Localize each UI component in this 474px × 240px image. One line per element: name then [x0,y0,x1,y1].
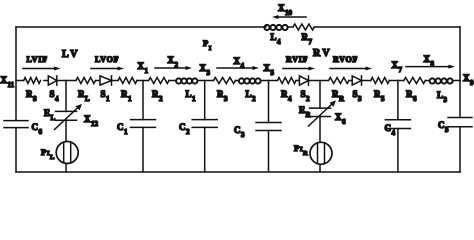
svg-text:R3: R3 [217,89,228,103]
resistor R3 [214,78,236,103]
wire: rail from X11 to R8 [16,80,24,82]
inductor L4 [264,25,288,46]
svg-text:EL: EL [44,108,56,122]
svg-text:C6: C6 [32,122,43,136]
wire: rail S1 to R1 [112,80,119,82]
wire: right bus (C5 down to bottom bus) [459,127,461,172]
wire: branch EL down to source PIL [65,120,67,141]
wire: rail S3 to R5 [362,80,371,82]
wire: branch X3 down to C2 [204,81,206,120]
resistor R5 [371,78,390,103]
svg-text:R2: R2 [152,89,163,103]
wire: rail R8 to S4 [44,80,48,82]
svg-text:R7: R7 [302,32,313,46]
wire: right bus (X9 down to C5) [459,81,461,118]
diode S4 [48,76,59,103]
capacitor C1 [117,120,156,136]
wire: branch ER down to source PIR [319,117,321,143]
svg-text:RVIF: RVIF [286,55,308,64]
node X9 label [463,73,474,87]
svg-text:R: R [303,150,308,157]
svg-text:L: L [50,154,55,161]
svg-text:R4: R4 [281,89,292,103]
svg-text:X7: X7 [392,60,403,74]
label LV [62,49,80,60]
arrow X10 (leftward) with label [272,3,306,19]
svg-text:X12: X12 [84,114,99,128]
node X1 label [138,61,149,75]
svg-text:X9: X9 [463,73,474,87]
wire: left bus (upper, node X11 down to C6) [15,27,17,120]
wire: rail R6 to L3 [425,80,429,82]
svg-text:S2: S2 [301,89,311,103]
diode S3 [352,76,362,103]
svg-text:C4: C4 [385,123,396,137]
arrow LVIF [23,55,61,71]
svg-text:S1: S1 [101,89,111,103]
svg-text:C5: C5 [438,120,449,134]
wire: branch from junction down to EL [65,81,67,112]
inductor L1 [176,78,197,102]
svg-text:X3: X3 [200,63,211,77]
arrow X2 [155,55,192,70]
diode S1 [100,76,112,103]
node X5 label [264,63,275,77]
svg-text:RL: RL [78,89,90,103]
resistor R6 [404,78,426,103]
capacitor C5 [438,118,472,134]
svg-text:ER: ER [299,105,312,119]
svg-text:R1: R1 [121,89,132,103]
svg-text:RVOF: RVOF [333,55,358,64]
svg-text:PI: PI [203,38,212,52]
svg-text:R8: R8 [26,89,37,103]
svg-text:X11: X11 [1,75,15,89]
wire: rail RL to S1 [96,80,101,82]
wire: left bus (C6 down to bottom bus) [15,128,17,172]
resistor RR [329,78,349,103]
svg-text:LVOF: LVOF [95,55,119,64]
svg-text:S4: S4 [50,89,60,103]
svg-text:R5: R5 [374,89,385,103]
svg-text:C1: C1 [117,122,128,136]
svg-text:P: P [41,147,46,157]
wire: rail R5 to R6 through node X7 [389,80,404,82]
svg-text:X1: X1 [138,61,149,75]
wire: right bus (top corner down to node X9) [459,27,461,81]
svg-text:L1: L1 [186,89,197,103]
diode S2 [299,76,310,103]
wire: rail L3 to node X9 [453,80,460,82]
node X3 label [200,63,211,77]
svg-text:RR: RR [332,89,345,103]
node X7 label [392,60,403,74]
resistor R2 [149,78,169,103]
label RV [313,48,332,59]
wire: branch source down to bottom bus [319,164,321,172]
wire: rail R1 to R2 through node X1 [137,80,149,82]
inductor L2 [239,78,261,102]
svg-text:X5: X5 [264,63,275,77]
svg-text:LVIF: LVIF [27,55,48,64]
wire: branch from junction down to ER [319,81,321,109]
wire: branch C2 down to bottom bus [204,127,206,172]
resistor R1 [118,78,137,103]
resistor R8 [24,78,41,103]
arrow X8 [406,54,455,69]
source PIR (circle with bars) [294,142,332,164]
wire: rail L1 to R3 through node X3 [198,80,214,82]
svg-text:X8: X8 [424,54,435,68]
wire: bottom bus [16,171,460,173]
svg-text:RV: RV [313,48,332,59]
label P_I [203,38,212,52]
arrow LVOF [91,55,124,71]
arrow X4 [217,56,259,70]
wire: branch C1 down to bottom bus [142,127,144,172]
capacitor C3 [234,123,281,139]
wire: branch X5 down to C3 [268,81,270,123]
resistor R7 [293,24,314,46]
node X11 label [1,75,15,89]
capacitor C2 [179,120,217,136]
svg-text:P: P [294,143,299,153]
variable capacitor ER (X6) [299,100,346,126]
svg-text:L4: L4 [271,32,282,46]
wire: rail S2 to RR through junction [309,80,329,82]
wire: rail R3 to L2 [235,80,238,82]
wire: rail R4 to S2 [296,80,299,82]
svg-text:X6: X6 [335,112,346,126]
svg-text:C2: C2 [179,122,190,136]
resistor RL [76,78,96,103]
capacitor C4 [385,120,411,137]
wire: rail RR to S3 [349,80,352,82]
arrow RVIF [283,55,315,71]
wire: rail S4 to R_L through junction [57,80,76,82]
svg-text:X10: X10 [278,3,293,17]
svg-text:L3: L3 [437,90,448,104]
svg-text:C3: C3 [234,125,245,139]
svg-text:X2: X2 [168,55,179,69]
wire: rail L2 to R4 through node X5 [261,80,278,82]
inductor L3 [430,78,453,103]
wire: rail R2 to L1 [169,80,176,82]
wire: branch C4 down to bottom bus [397,129,399,173]
wire: branch source down to bottom bus [65,164,67,173]
wire: top bus between L4 and R7 [288,26,293,28]
wire: top bus left segment [16,26,264,28]
svg-text:LV: LV [62,49,80,60]
variable capacitor EL (X12) [44,104,99,130]
wire: top bus right segment [314,26,460,28]
wire: branch X1 down to C1 [142,81,144,120]
wire: branch C3 down to bottom bus [268,131,270,173]
svg-text:R6: R6 [406,89,417,103]
svg-text:S3: S3 [353,89,363,103]
source PIL (circle with bars) [41,142,78,164]
capacitor C6 [4,121,43,136]
wire: branch X7 down to C4 [397,81,399,120]
arrow RVOF [330,55,372,71]
svg-text:L2: L2 [246,89,257,103]
resistor R4 [278,78,297,103]
